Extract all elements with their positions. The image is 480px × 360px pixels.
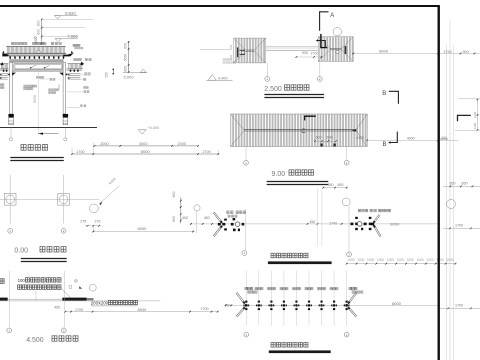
svg-text:900: 900	[302, 51, 308, 55]
svg-text:B: B	[382, 91, 386, 97]
svg-text:1700: 1700	[329, 222, 337, 226]
svg-text:8.920: 8.920	[65, 11, 76, 16]
svg-text:1000: 1000	[417, 258, 424, 262]
svg-text:450: 450	[309, 220, 315, 224]
svg-text:250: 250	[105, 72, 109, 78]
svg-text:2000: 2000	[100, 142, 108, 146]
svg-text:1700: 1700	[202, 150, 210, 154]
svg-text:1700: 1700	[444, 50, 452, 54]
svg-text:600: 600	[327, 136, 333, 140]
svg-text:850: 850	[462, 182, 468, 186]
svg-text:2000: 2000	[178, 142, 186, 146]
svg-text:4000: 4000	[356, 136, 364, 140]
svg-text:600: 600	[172, 216, 176, 222]
svg-text:850: 850	[328, 183, 334, 187]
svg-text:2.500: 2.500	[264, 86, 282, 93]
svg-text:5.000: 5.000	[124, 75, 135, 80]
svg-text:200: 200	[57, 84, 61, 89]
svg-text:8000: 8000	[390, 221, 400, 226]
svg-text:1700: 1700	[455, 223, 463, 227]
svg-text:5000: 5000	[33, 95, 37, 103]
svg-text:275: 275	[95, 220, 101, 224]
svg-text:1000: 1000	[426, 258, 433, 262]
svg-text:1700: 1700	[455, 304, 463, 308]
svg-text:250: 250	[230, 54, 233, 59]
svg-text:4000: 4000	[407, 136, 415, 140]
svg-text:1000: 1000	[347, 258, 354, 262]
svg-text:850: 850	[450, 182, 456, 186]
svg-text:5000: 5000	[124, 54, 128, 62]
svg-text:850: 850	[338, 183, 344, 187]
svg-text:1700: 1700	[200, 307, 208, 311]
svg-text:600: 600	[316, 136, 322, 140]
svg-text:900: 900	[463, 50, 469, 54]
svg-text:A: A	[330, 13, 334, 19]
svg-text:600: 600	[37, 29, 41, 35]
svg-text:1700: 1700	[76, 150, 84, 154]
svg-text:4.500: 4.500	[26, 337, 44, 344]
svg-text:650: 650	[124, 66, 128, 72]
svg-text:1200: 1200	[473, 111, 477, 118]
svg-text:1000: 1000	[436, 258, 443, 262]
svg-text:1200: 1200	[473, 122, 477, 129]
svg-text:1000: 1000	[397, 258, 404, 262]
svg-text:650: 650	[124, 43, 128, 49]
svg-text:450: 450	[54, 306, 60, 310]
svg-text:275: 275	[80, 220, 86, 224]
svg-text:8000: 8000	[392, 301, 402, 306]
svg-text:100: 100	[18, 278, 26, 283]
svg-text:0.00: 0.00	[14, 248, 28, 255]
svg-text:1700: 1700	[311, 51, 319, 55]
svg-text:+0.000: +0.000	[148, 126, 159, 130]
svg-text:450: 450	[204, 216, 210, 220]
svg-text:250: 250	[230, 44, 233, 49]
svg-text:9.00: 9.00	[272, 171, 286, 178]
svg-text:C: C	[301, 129, 306, 135]
svg-text:4000: 4000	[139, 142, 147, 146]
svg-text:1000: 1000	[377, 258, 384, 262]
svg-text:450: 450	[182, 216, 188, 220]
svg-text:8000: 8000	[379, 49, 389, 54]
svg-text:8000: 8000	[141, 149, 151, 154]
svg-text:1000: 1000	[367, 258, 374, 262]
svg-text:7.000: 7.000	[67, 34, 78, 39]
svg-text:1000: 1000	[446, 258, 453, 262]
svg-text:1000: 1000	[357, 258, 364, 262]
svg-text:600: 600	[172, 192, 176, 198]
svg-text:1320: 1320	[34, 36, 38, 43]
svg-text:200X200: 200X200	[91, 300, 109, 305]
svg-text:B: B	[383, 142, 387, 148]
svg-text:00600: 00600	[440, 137, 449, 141]
svg-text:1000: 1000	[387, 258, 394, 262]
svg-text:8000: 8000	[138, 226, 148, 231]
svg-text:4.400: 4.400	[218, 76, 228, 80]
svg-text:600: 600	[37, 20, 41, 26]
svg-text:1000: 1000	[407, 258, 414, 262]
